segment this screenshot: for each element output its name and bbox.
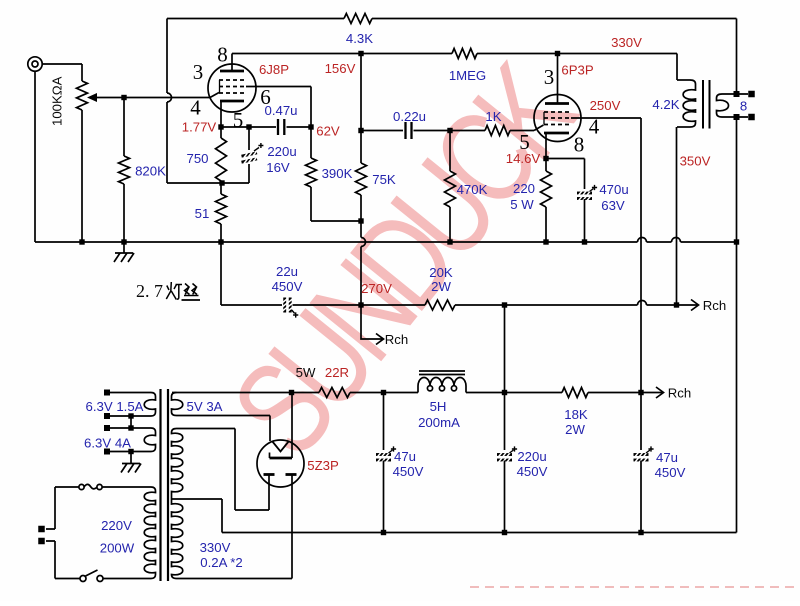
svg-text:5: 5	[233, 108, 244, 132]
winding HV 330V x2	[172, 429, 183, 496]
wire 22R to choke	[350, 392, 418, 394]
wire 5V winding to rectifier junction	[172, 392, 319, 394]
arrow Rch 270V	[361, 305, 382, 339]
OPT primary winding 4.2K	[683, 80, 695, 127]
wire HV bottom to right plate	[177, 578, 293, 580]
svg-text:4.3K: 4.3K	[346, 31, 373, 46]
tube 5Z3P filament leads	[291, 393, 293, 459]
resistor 1K	[485, 126, 510, 136]
wire wiper to 6J8P grid	[124, 97, 210, 99]
resistor 820K	[123, 98, 125, 157]
svg-text:20K: 20K	[429, 265, 453, 280]
capacitor 47u 450V (reservoir)	[383, 393, 385, 451]
svg-text:5Z3P: 5Z3P	[307, 458, 339, 473]
svg-text:220V: 220V	[101, 518, 132, 533]
svg-text:450V: 450V	[517, 464, 548, 479]
svg-text:Rch: Rch	[703, 298, 726, 313]
tube 6J8P top-cap grid bar and pin 8 riser	[220, 70, 244, 73]
choke 5H 200mA	[417, 386, 419, 393]
resistor 22R 5W	[319, 388, 350, 398]
resistor 750	[220, 127, 222, 138]
PT core	[161, 389, 169, 581]
potentiometer 100KohmA	[81, 64, 83, 81]
svg-text:200W: 200W	[100, 541, 135, 556]
svg-text:1.77V: 1.77V	[182, 120, 217, 135]
glyph si (filament)	[185, 284, 190, 295]
wire HV top to left plate	[177, 429, 270, 511]
winding 6.3V 1.5A	[144, 393, 155, 417]
wire ground to 22u	[220, 242, 222, 305]
svg-text:5V 3A: 5V 3A	[187, 399, 223, 414]
node 62V	[308, 124, 313, 129]
node 47u reservoir	[381, 390, 386, 395]
svg-text:75K: 75K	[372, 172, 396, 187]
svg-text:8: 8	[740, 99, 747, 114]
svg-text:1MEG: 1MEG	[449, 68, 486, 83]
svg-text:62V: 62V	[316, 124, 340, 139]
tube 6P3P grids (dashed)	[544, 112, 571, 125]
svg-text:156V: 156V	[325, 61, 356, 76]
tube 6J8P cathode lead pin 5	[220, 101, 222, 127]
watermark dashed line	[470, 586, 795, 588]
wire jack to pot	[42, 63, 82, 65]
svg-text:4: 4	[589, 115, 600, 139]
svg-text:47u: 47u	[394, 449, 416, 464]
winding 5V 3A	[172, 393, 183, 416]
switch	[55, 578, 80, 580]
wire choke output riser	[504, 305, 506, 393]
wire jack down to ground rail	[34, 71, 36, 242]
resistor 220 5W	[545, 159, 547, 172]
node rectifier output	[289, 390, 294, 395]
wire center link	[130, 416, 132, 428]
capacitor 0.47u	[278, 119, 284, 135]
svg-text:51: 51	[195, 206, 210, 221]
svg-text:2W: 2W	[565, 422, 585, 437]
wire 75K hop over ground rail	[361, 238, 366, 247]
tube 6P3P screen lead pin 4	[571, 117, 641, 119]
wire 5V bottom lead to filament	[177, 415, 271, 417]
svg-text:8: 8	[217, 43, 228, 67]
svg-text:16V: 16V	[266, 160, 290, 175]
svg-text:450V: 450V	[655, 465, 686, 480]
capacitor 22u 450V	[283, 298, 286, 313]
svg-text:100KΩA: 100KΩA	[50, 76, 65, 126]
wire 1K to 6P3P grid	[510, 130, 534, 132]
svg-text:3: 3	[544, 65, 555, 89]
wire feedback left drop	[166, 19, 168, 94]
resistor 470K	[449, 131, 451, 172]
wire HV center tap to ground	[172, 499, 223, 533]
svg-text:6J8P: 6J8P	[259, 62, 289, 77]
svg-text:14.6V: 14.6V	[506, 151, 541, 166]
svg-text:750: 750	[186, 151, 208, 166]
svg-text:350V: 350V	[680, 154, 711, 169]
svg-text:18K: 18K	[564, 407, 588, 422]
svg-text:220u: 220u	[517, 449, 546, 464]
svg-text:6.3V 1.5A: 6.3V 1.5A	[86, 399, 144, 414]
glyph deng (lamp)	[166, 282, 176, 300]
wire 350V row with hop	[455, 304, 638, 306]
wire 1.77V cathode row	[221, 126, 276, 128]
svg-text:63V: 63V	[601, 198, 625, 213]
tube 5Z3P plates	[264, 473, 275, 476]
tube 6P3P envelope	[534, 95, 581, 142]
wire pin8 row to 1MEG	[232, 53, 452, 55]
tube 5Z3P envelope	[257, 440, 304, 487]
ground chassis symbol (heater)	[130, 452, 132, 464]
node 330V	[555, 51, 560, 56]
svg-text:5 W: 5 W	[510, 197, 534, 212]
node cathode bottom junction	[219, 180, 224, 185]
wire 330V to OPT primary	[676, 54, 678, 81]
wire ground rail	[35, 241, 638, 243]
wire cathode bottom row	[167, 182, 249, 184]
svg-text:4: 4	[190, 96, 201, 120]
capacitor 220u 16V	[248, 127, 250, 150]
wire feedback top right	[372, 18, 737, 20]
node ground junctions	[79, 239, 84, 244]
node 1.77V	[218, 124, 223, 129]
svg-text:250V: 250V	[590, 98, 621, 113]
node cathode cap junction	[246, 124, 251, 129]
input jack J1	[28, 57, 42, 71]
wire 156V drop	[360, 54, 362, 131]
capacitor 220u 450V	[504, 393, 506, 451]
winding 6.3V 4A	[144, 428, 155, 452]
svg-text:0.22u: 0.22u	[393, 109, 426, 124]
fuse	[55, 486, 79, 488]
tube 6J8P plate lead pin 6	[246, 86, 311, 88]
tube 5Z3P plate leads	[268, 475, 270, 511]
speaker terminals	[734, 91, 740, 97]
OPT secondary winding 8 ohm	[717, 94, 729, 117]
tube 6J8P grids (dashed)	[219, 80, 247, 93]
svg-text:8: 8	[574, 133, 585, 157]
tube 6J8P envelope	[208, 64, 256, 112]
svg-text:5H: 5H	[430, 399, 447, 414]
svg-text:470u: 470u	[599, 182, 628, 197]
resistor 18K 2W	[562, 388, 588, 398]
resistor 1MEG	[452, 49, 477, 59]
svg-text:22u: 22u	[276, 264, 298, 279]
svg-text:Rch: Rch	[385, 332, 408, 347]
node 0.22u takeoff	[358, 128, 363, 133]
node choke output	[502, 390, 507, 395]
resistor 75K	[360, 131, 362, 164]
node 156V	[358, 51, 363, 56]
svg-text:6P3P: 6P3P	[561, 63, 593, 78]
svg-text:220: 220	[513, 181, 535, 196]
svg-text:0.47u: 0.47u	[264, 103, 297, 118]
wire 1MEG to 330V node	[477, 53, 677, 55]
node cap grounds	[381, 530, 386, 535]
svg-text:450V: 450V	[393, 464, 424, 479]
svg-text:6.3V 4A: 6.3V 4A	[84, 436, 131, 451]
arrow Rch 350V	[677, 304, 698, 306]
capacitor 0.22u	[406, 122, 412, 139]
svg-text:2W: 2W	[431, 279, 451, 294]
wire bottom ground rail	[222, 532, 737, 534]
resistor 51	[220, 183, 222, 194]
svg-text:330V: 330V	[611, 35, 642, 50]
tube 6J8P cathode bar	[220, 100, 244, 103]
arrow Rch screen	[641, 392, 662, 394]
tube 6P3P plate bar and pin 3 riser	[545, 102, 569, 105]
tube 5Z3P filament	[272, 441, 289, 452]
svg-text:200mA: 200mA	[418, 415, 460, 430]
node wiper junction	[121, 95, 126, 100]
svg-text:330V: 330V	[200, 540, 231, 555]
node 350V junction	[674, 302, 679, 307]
tube 6P3P cathode bar	[544, 132, 569, 135]
svg-text:470K: 470K	[457, 182, 488, 197]
wire 0.22u row	[361, 130, 403, 132]
node 250V screen supply	[638, 390, 643, 395]
wire feedback top	[167, 18, 344, 20]
tube 6P3P cathode lead	[545, 133, 547, 159]
svg-text:47u: 47u	[656, 450, 678, 465]
wire 350V drop	[676, 127, 678, 305]
svg-text:5W: 5W	[296, 365, 316, 380]
svg-text:Rch: Rch	[668, 386, 691, 401]
resistor 4.3K	[344, 14, 372, 24]
underline	[182, 299, 201, 301]
svg-text:4.2K: 4.2K	[652, 97, 679, 112]
OPT core	[703, 80, 710, 129]
node grid stopper junction	[447, 128, 452, 133]
svg-text:220u: 220u	[267, 144, 296, 159]
capacitor 470u 63V	[577, 192, 592, 195]
wire choke to 18K	[466, 392, 562, 394]
wire right ground trunk	[736, 117, 738, 533]
node 390K/75K junction	[358, 218, 363, 223]
wire cathode row to bypass cap	[546, 158, 585, 160]
winding 220V primary	[144, 487, 155, 579]
resistor 20K 2W	[425, 300, 455, 310]
resistor 390K	[310, 127, 312, 158]
node 270V	[358, 302, 363, 307]
node choke output riser	[502, 302, 507, 307]
svg-text:270V: 270V	[361, 281, 392, 296]
svg-text:3: 3	[193, 60, 204, 84]
svg-text:820K: 820K	[135, 164, 166, 179]
svg-text:2. 7: 2. 7	[136, 281, 163, 301]
svg-text:450V: 450V	[272, 279, 303, 294]
node 14.6V	[543, 156, 548, 161]
pot wiper arrow	[96, 97, 124, 99]
capacitor 47u 450V (screen)	[640, 393, 642, 451]
svg-text:1K: 1K	[485, 109, 501, 124]
svg-text:390K: 390K	[322, 166, 353, 181]
svg-text:0.2A *2: 0.2A *2	[200, 555, 243, 570]
ground chassis symbol	[123, 242, 125, 253]
svg-text:22R: 22R	[325, 365, 349, 380]
mains plug	[54, 487, 56, 529]
